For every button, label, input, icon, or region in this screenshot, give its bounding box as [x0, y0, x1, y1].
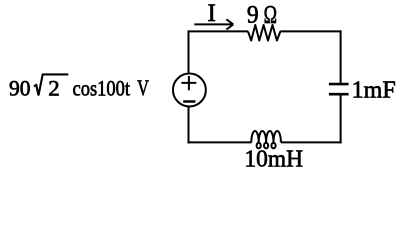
- wire: top-left horizontal segment: [188, 30, 249, 32]
- voltage source circle: [173, 74, 206, 107]
- wire: top-right horizontal segment: [280, 30, 341, 32]
- svg-text:10mH: 10mH: [244, 146, 303, 173]
- wire: right vertical lower segment: [340, 95, 342, 144]
- svg-text:I: I: [208, 0, 216, 27]
- current direction arrow: [194, 19, 233, 29]
- wire: left vertical upper segment: [188, 31, 190, 74]
- resistor 9-ohm zigzag: [248, 25, 280, 41]
- radical sign of sqrt(2): [34, 74, 68, 95]
- capacitor 1mF bottom plate: [329, 93, 349, 96]
- wire: bottom-right horizontal segment: [281, 141, 342, 143]
- wire: left vertical lower segment: [188, 107, 190, 144]
- svg-text:9: 9: [247, 2, 259, 29]
- svg-text:Ω: Ω: [264, 2, 277, 29]
- svg-text:2: 2: [48, 75, 60, 100]
- svg-text:cos100t: cos100t: [73, 75, 131, 100]
- wire: bottom-left horizontal segment: [188, 141, 252, 143]
- voltage source minus sign: [183, 100, 195, 103]
- wire: right vertical upper segment: [340, 30, 342, 83]
- capacitor 1mF top plate: [329, 83, 349, 86]
- voltage source plus sign: [181, 76, 196, 90]
- inductor 10mH loop coil: [251, 131, 281, 148]
- svg-text:1mF: 1mF: [352, 76, 396, 103]
- svg-text:V: V: [137, 75, 149, 100]
- svg-text:90: 90: [9, 75, 31, 100]
